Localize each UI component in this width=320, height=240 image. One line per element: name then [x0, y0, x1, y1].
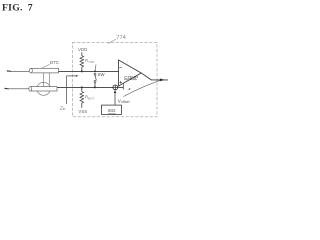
- junction switch top: [94, 70, 96, 72]
- DTC transducer loop band left side: [43, 73, 45, 87]
- wire resistor to VSS: [81, 103, 83, 108]
- switch blade stub above wire: [94, 65, 97, 72]
- leader from Voffset area to output: [123, 80, 160, 96]
- svg-text:FIG. 7: FIG. 7: [2, 3, 33, 14]
- switch SW: [94, 73, 96, 75]
- DTC transducer loop band right side: [48, 73, 50, 87]
- svg-text:SW: SW: [97, 72, 105, 77]
- wire VDD to resistor: [81, 52, 83, 55]
- resistor RBOT: [81, 87, 83, 91]
- output wire: [141, 73, 168, 80]
- wire up into comparator plus input: [122, 83, 124, 90]
- dashed block boundary 774: [72, 42, 157, 117]
- leader DTC: [42, 64, 50, 68]
- bottom transducer element: [29, 87, 57, 91]
- offset source box 602: [102, 105, 122, 114]
- top transducer element: [29, 68, 58, 73]
- svg-text:RBOT: RBOT: [85, 94, 95, 100]
- arrow from offset box into summing node: [114, 92, 116, 106]
- svg-text:COMP: COMP: [124, 75, 138, 80]
- lead wire top transducer: [7, 70, 29, 72]
- DTC loop ellipse around bottom element: [37, 82, 51, 95]
- svg-text:RTOP: RTOP: [85, 58, 94, 64]
- leader for 774: [108, 39, 116, 43]
- lead wire bottom transducer: [5, 88, 29, 90]
- svg-text:Zin: Zin: [59, 105, 66, 111]
- junction RBOT node: [81, 86, 83, 88]
- junction RTOP node: [81, 70, 83, 72]
- svg-text:774: 774: [116, 35, 126, 41]
- wire top node line: [59, 70, 119, 72]
- resistor RTOP: [80, 56, 84, 68]
- svg-text:VSS: VSS: [78, 109, 87, 114]
- svg-text:DTC: DTC: [50, 60, 59, 65]
- wire bottom node line: [57, 86, 113, 88]
- summing node Voffset circle: [113, 85, 118, 90]
- Zin impedance arrow: [66, 76, 68, 104]
- svg-text:VDD: VDD: [78, 47, 87, 52]
- svg-text:Voffset: Voffset: [118, 99, 130, 105]
- minus input mark: [119, 66, 121, 68]
- wire resistor to node: [81, 67, 83, 71]
- junction switch bottom: [94, 86, 96, 88]
- comparator COMP: [119, 60, 142, 86]
- svg-text:602: 602: [108, 108, 116, 113]
- output arrowhead: [160, 79, 165, 82]
- plus input mark: [120, 81, 122, 83]
- small plus mark outside: [129, 88, 130, 90]
